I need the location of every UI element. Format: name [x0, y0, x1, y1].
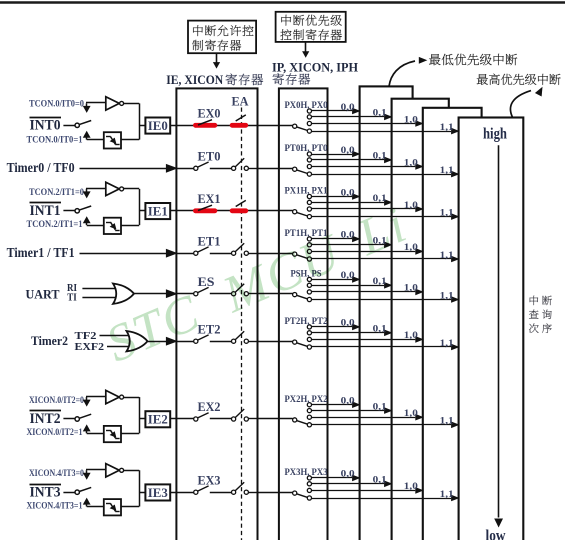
svg-text:0,1: 0,1 [373, 325, 387, 335]
svg-text:1,1: 1,1 [440, 291, 454, 301]
svg-text:0,1: 0,1 [373, 402, 387, 412]
svg-text:IE0: IE0 [148, 118, 168, 133]
svg-text:Timer0 / TF0: Timer0 / TF0 [7, 161, 75, 176]
svg-text:0,0: 0,0 [341, 397, 355, 407]
svg-text:UART: UART [26, 286, 60, 301]
svg-text:1,1: 1,1 [440, 251, 454, 261]
svg-text:0,1: 0,1 [373, 152, 387, 162]
svg-text:IE2: IE2 [148, 412, 168, 427]
svg-text:XICON.4/IT3=0: XICON.4/IT3=0 [29, 468, 84, 478]
svg-text:PX2H, PX2: PX2H, PX2 [285, 394, 328, 404]
svg-text:XICON.0/IT2=0: XICON.0/IT2=0 [29, 395, 84, 405]
svg-text:0,1: 0,1 [373, 109, 387, 119]
svg-text:0,0: 0,0 [341, 231, 355, 241]
svg-text:1,0: 1,0 [404, 158, 418, 168]
svg-text:TCON.0/IT0=0: TCON.0/IT0=0 [29, 99, 84, 109]
svg-text:1,0: 1,0 [404, 331, 418, 341]
svg-text:IE3: IE3 [148, 485, 168, 500]
svg-text:EX0: EX0 [198, 107, 221, 121]
svg-text:1,0: 1,0 [404, 409, 418, 419]
svg-text:PT0H, PT0: PT0H, PT0 [285, 143, 328, 153]
svg-text:ET1: ET1 [198, 234, 221, 248]
svg-text:1,0: 1,0 [404, 482, 418, 492]
svg-text:INT3: INT3 [30, 484, 61, 500]
svg-text:low: low [486, 528, 507, 541]
svg-text:EX1: EX1 [198, 192, 221, 206]
svg-text:INT0: INT0 [30, 118, 61, 134]
svg-text:TCON.2/IT1=1: TCON.2/IT1=1 [27, 219, 83, 229]
svg-text:IP, XICON, IPH: IP, XICON, IPH [272, 60, 358, 74]
svg-text:1,1: 1,1 [440, 166, 454, 176]
svg-text:PX1H, PX1: PX1H, PX1 [285, 186, 328, 196]
svg-text:TCON.2/IT1=0: TCON.2/IT1=0 [29, 187, 84, 197]
svg-text:1,0: 1,0 [404, 284, 418, 294]
svg-text:Timer1 / TF1: Timer1 / TF1 [7, 246, 75, 261]
svg-text:EA: EA [232, 94, 250, 109]
svg-text:XICON.0/IT2=1: XICON.0/IT2=1 [27, 427, 83, 437]
svg-text:0,0: 0,0 [341, 146, 355, 156]
svg-text:1,1: 1,1 [440, 417, 454, 427]
svg-text:PX3H, PX3: PX3H, PX3 [285, 467, 328, 477]
svg-text:0,0: 0,0 [341, 319, 355, 329]
svg-text:1,0: 1,0 [404, 201, 418, 211]
svg-text:ET0: ET0 [198, 150, 221, 164]
svg-text:XICON.4/IT3=1: XICON.4/IT3=1 [27, 500, 83, 510]
svg-text:TI: TI [67, 293, 77, 304]
svg-text:EX3: EX3 [198, 473, 221, 487]
svg-text:high: high [483, 126, 507, 143]
svg-text:IE, XICON: IE, XICON [166, 73, 223, 87]
svg-text:1,1: 1,1 [440, 208, 454, 218]
svg-text:TCON.0/IT0=1: TCON.0/IT0=1 [27, 134, 83, 144]
svg-text:EXF2: EXF2 [75, 342, 105, 353]
svg-text:INT2: INT2 [30, 411, 61, 427]
svg-text:ES: ES [198, 275, 215, 289]
svg-text:Timer2: Timer2 [31, 333, 68, 348]
svg-text:1,1: 1,1 [440, 123, 454, 133]
svg-text:TF2: TF2 [75, 331, 97, 342]
svg-text:0,0: 0,0 [341, 188, 355, 198]
svg-text:INT1: INT1 [30, 203, 61, 219]
svg-text:1,0: 1,0 [404, 115, 418, 125]
svg-text:0,0: 0,0 [341, 103, 355, 113]
svg-text:PT2H, PT2: PT2H, PT2 [285, 316, 328, 326]
svg-text:IE1: IE1 [148, 203, 168, 218]
svg-text:0,0: 0,0 [341, 470, 355, 480]
svg-text:1,1: 1,1 [440, 339, 454, 349]
svg-text:1,1: 1,1 [440, 490, 454, 500]
svg-text:0,1: 0,1 [373, 277, 387, 287]
svg-text:0,1: 0,1 [373, 476, 387, 486]
svg-text:PX0H, PX0: PX0H, PX0 [285, 100, 328, 110]
svg-text:EX2: EX2 [198, 400, 221, 414]
